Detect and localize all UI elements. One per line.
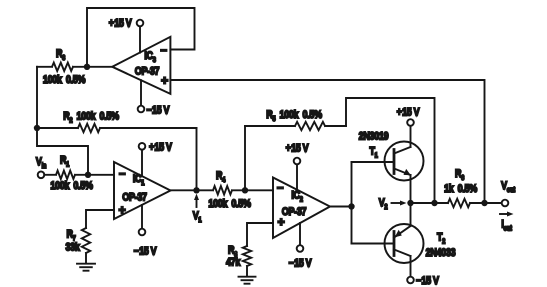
label R6 (455, 168, 465, 182)
svg-text:R6: R6 (455, 168, 465, 182)
wire IC3 inverting-input feedback loop (87, 8, 195, 67)
label R8 value 47k (226, 257, 241, 269)
label Vout (501, 180, 516, 194)
svg-text:OP-37: OP-37 (135, 66, 160, 78)
ground below R8 (239, 277, 256, 284)
svg-text:+ 15 V: + 15 V (109, 18, 132, 30)
IC2 +15V supply terminal (286, 143, 309, 190)
label R4 (216, 170, 226, 184)
transistor T2 2N4033 (385, 224, 424, 263)
resistor R7 (82, 228, 90, 263)
label Iout with arrow (500, 212, 514, 233)
label R3 value 100k 0.5% (43, 74, 86, 86)
label T2 type 2N4033 (426, 247, 456, 259)
label T1 (369, 146, 378, 160)
label R3 (56, 48, 66, 62)
svg-text:− 15 V: − 15 V (134, 246, 157, 258)
svg-text:+: + (119, 203, 126, 217)
junction IC2 output node (348, 203, 354, 209)
op-amp IC2 (273, 178, 330, 239)
svg-text:−: − (160, 45, 166, 57)
wire IC2 non-inverting input to R8 (247, 223, 273, 246)
ground below R7 (77, 264, 95, 271)
svg-text:+ 15 V: + 15 V (149, 141, 172, 153)
transistor T1 2N3019 (385, 142, 424, 181)
resistor R4 (197, 186, 246, 194)
svg-text:R4: R4 (216, 170, 226, 184)
wire output sense feedback to IC3 non-inverting input (170, 80, 484, 203)
wire IC1 output to node V1 (171, 189, 197, 191)
svg-text:100k 0.5%: 100k 0.5% (43, 74, 86, 86)
wire base drive vertical (351, 162, 353, 244)
label R6 value 1k 0.5% (444, 183, 477, 195)
wire node to IC2 inverting input (245, 189, 273, 191)
svg-text:R2 100k 0.5%: R2 100k 0.5% (63, 111, 119, 125)
junction summing node on R1 wire (85, 172, 91, 178)
svg-text:33k: 33k (65, 242, 80, 254)
svg-text:1k 0.5%: 1k 0.5% (444, 183, 477, 195)
junction rail / R5-sense node (431, 200, 437, 206)
label T2 (437, 232, 446, 246)
resistor R2 (37, 124, 197, 132)
svg-text:Vout: Vout (501, 180, 516, 194)
resistor R5 (245, 122, 346, 130)
wire to T1 base (352, 161, 395, 163)
svg-text:+ 15 V: + 15 V (397, 107, 420, 119)
label R1 (60, 155, 70, 169)
label T1 type 2N3019 (359, 131, 389, 143)
junction R2 / R3 branch node (34, 125, 40, 131)
label R4 value 100k 0.5% (208, 198, 251, 210)
label V1 with arrow (193, 194, 202, 225)
terminal Vin (38, 172, 45, 179)
IC1 -15V supply terminal (134, 205, 157, 258)
svg-text:47k: 47k (226, 257, 241, 269)
T1 +15V supply terminal (397, 107, 420, 147)
terminal Vout (502, 200, 509, 207)
wire to T2 base (352, 243, 395, 245)
resistor R6 (435, 199, 485, 207)
wire left branch vertical R3 to R2 (36, 67, 38, 128)
svg-text:+: + (161, 74, 168, 88)
label V2 with arrow (379, 197, 407, 211)
svg-text:T2: T2 (437, 232, 446, 246)
svg-text:− 15 V: − 15 V (147, 105, 170, 117)
svg-text:IC1: IC1 (133, 173, 145, 187)
label R7 value 33k (65, 242, 80, 254)
svg-text:R3: R3 (56, 48, 66, 62)
svg-text:IC3: IC3 (144, 50, 156, 64)
label R5 100k 0.5% (266, 109, 322, 123)
svg-text:100k 0.5%: 100k 0.5% (208, 198, 251, 210)
resistor R1 (44, 171, 88, 179)
wire to Vout terminal (485, 202, 502, 204)
wire emitter rail (411, 202, 436, 204)
svg-text:OP-37: OP-37 (122, 192, 147, 204)
wire IC1 non-inverting input to R7 (86, 210, 114, 228)
label R8 (228, 245, 238, 259)
svg-text:2N3019: 2N3019 (359, 131, 389, 143)
op-amp IC1 (114, 162, 171, 219)
resistor R8 (243, 246, 251, 276)
svg-text:100k 0.5%: 100k 0.5% (50, 180, 93, 192)
svg-text:OP-37: OP-37 (282, 206, 307, 218)
IC3 +15V supply terminal (109, 18, 143, 53)
wire R5 branch vertical (244, 126, 246, 190)
svg-text:R7: R7 (66, 229, 76, 243)
svg-text:T1: T1 (369, 146, 378, 160)
svg-text:+ 15 V: + 15 V (286, 143, 309, 155)
svg-text:R1: R1 (60, 155, 70, 169)
svg-text:V2: V2 (379, 197, 388, 211)
svg-text:−: − (119, 169, 125, 181)
svg-text:V1: V1 (193, 210, 202, 224)
IC3 -15V supply terminal (138, 80, 170, 117)
wire R5 to node V2 rail (346, 98, 435, 203)
wire T2 emitter to rail (410, 203, 412, 226)
op-amp IC3 (112, 37, 170, 94)
T2 -15V supply terminal (407, 256, 439, 287)
wire IC3 output to node (87, 66, 112, 68)
junction IC3 output / R3 / feedback node (84, 64, 90, 70)
junction R4 / R5 / IC2 inverting input node (242, 187, 248, 193)
svg-text:− 15 V: − 15 V (416, 275, 439, 287)
svg-text:Iout: Iout (501, 219, 512, 233)
label R7 (66, 229, 76, 243)
label R2 100k 0.5% (63, 111, 119, 125)
wire T1 emitter to rail (410, 175, 412, 203)
svg-text:2N4033: 2N4033 (426, 247, 456, 259)
svg-text:Vin: Vin (36, 156, 47, 170)
wire R1 to IC1 inverting input (88, 174, 114, 176)
label Vin (36, 156, 47, 170)
junction node V2 emitters (407, 200, 413, 206)
label R1 value 100k 0.5% (50, 180, 93, 192)
svg-text:R5 100k 0.5%: R5 100k 0.5% (266, 109, 322, 123)
resistor R3 (37, 63, 87, 71)
IC2 -15V supply terminal (289, 223, 312, 270)
wire R2 right end down to node V1 (196, 128, 198, 190)
wire summing node to R1 wire (37, 128, 88, 175)
junction node V1 (193, 187, 199, 193)
svg-text:−: − (277, 183, 283, 195)
wire IC2 output (330, 206, 352, 208)
IC1 +15V supply terminal (139, 141, 172, 176)
svg-text:− 15 V: − 15 V (289, 258, 312, 270)
junction Vout sense node (481, 200, 487, 206)
